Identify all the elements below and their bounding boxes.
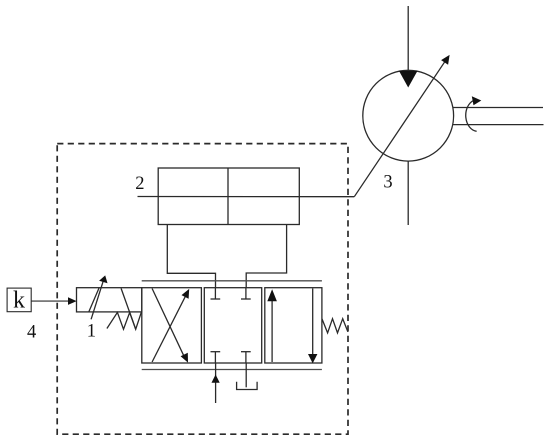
solenoid slash: [89, 288, 99, 312]
signal arrowhead: [68, 297, 77, 305]
pump bottom port wire: [407, 161, 409, 225]
dashed enclosure border: [57, 144, 348, 435]
pump drive shaft lower line: [453, 124, 544, 126]
shaft rotation arrowhead: [472, 96, 482, 105]
solenoid adjust arrow shaft: [91, 280, 103, 319]
pump inlet triangle: [399, 71, 418, 88]
solenoid adjust arrowhead: [99, 275, 107, 283]
wire cylinder right port to valve port B: [246, 225, 286, 288]
proportional solenoid A1 box: [77, 288, 142, 312]
left return spring: [107, 312, 141, 329]
pump drive shaft upper line: [453, 107, 543, 109]
centre box blocked port bottom-left: [214, 352, 216, 363]
valve bottom rail: [142, 369, 322, 371]
svg-text:1: 1: [87, 322, 96, 342]
controller K box: [7, 288, 31, 312]
pump top port wire: [407, 6, 409, 70]
centre box blocked port top-left: [214, 288, 216, 299]
wire cylinder left port to valve port A: [167, 225, 215, 288]
centre box blocked port top-right: [245, 288, 247, 299]
tank line T: [245, 363, 247, 387]
left box crossed flow path arrow up: [152, 293, 187, 362]
right box straight flow arrow up: [271, 300, 273, 362]
piston rod wire to pump swashplate: [138, 196, 355, 198]
shaft rotation arc: [466, 100, 477, 131]
left box crossed flow path arrow down: [152, 289, 185, 359]
centre box blocked port bottom-right: [245, 352, 247, 363]
valve top rail: [142, 280, 322, 282]
svg-text:k: k: [13, 288, 25, 314]
long slash through box: [121, 288, 136, 329]
svg-text:4: 4: [27, 323, 36, 343]
signal wire k to solenoid: [31, 300, 69, 302]
valve V1 right position box: [265, 288, 322, 363]
cylinder piston: [227, 168, 229, 225]
pressure supply arrow P: [215, 363, 217, 403]
svg-text:2: 2: [135, 174, 144, 194]
pump U1 circle: [363, 70, 454, 161]
right box straight flow arrow down: [312, 289, 314, 355]
valve V1 left position box: [142, 288, 202, 363]
pump variable arrow shaft: [354, 59, 446, 197]
control cylinder C2 body: [158, 168, 299, 225]
valve V1 centre position box: [204, 288, 261, 363]
tank symbol: [237, 382, 258, 390]
pump variable arrowhead: [441, 55, 450, 65]
svg-text:3: 3: [383, 172, 392, 192]
right return spring: [322, 319, 348, 333]
